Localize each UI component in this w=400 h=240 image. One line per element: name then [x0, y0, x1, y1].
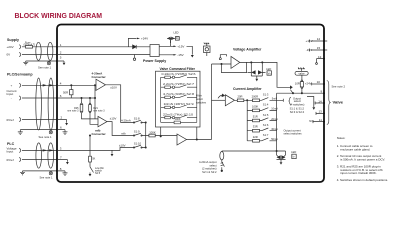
svg-text:0Vref: 0Vref: [7, 118, 14, 122]
svg-text:select: select: [196, 97, 203, 101]
svg-text:S1:7: S1:7: [263, 133, 269, 137]
svg-text:20mA: 20mA: [271, 118, 278, 121]
svg-text:PS: PS: [176, 38, 180, 41]
svg-text:enclosure cable gland.: enclosure cable gland.: [340, 147, 370, 151]
svg-text:S1:8: S1:8: [134, 116, 140, 120]
svg-text:100K: 100K: [149, 131, 156, 135]
svg-text:20R: 20R: [238, 94, 243, 98]
svg-text:S1:3: S1:3: [263, 93, 269, 97]
svg-text:30mA: 30mA: [271, 128, 278, 131]
svg-text:-15V: -15V: [177, 53, 183, 57]
svg-text:14: 14: [318, 99, 322, 103]
svg-text:13: 13: [318, 55, 322, 59]
svg-text:select switches: select switches: [284, 132, 303, 136]
svg-text:(4 switches): (4 switches): [290, 103, 304, 107]
svg-text:Valve Command Filter: Valve Command Filter: [160, 67, 196, 71]
svg-text:LED: LED: [174, 31, 179, 35]
svg-text:10mS (16Hz) S2:9: 10mS (16Hz) S2:9: [164, 103, 195, 106]
svg-text:Input: Input: [7, 92, 14, 96]
svg-text:+15V: +15V: [306, 39, 313, 43]
svg-text:+: +: [11, 84, 13, 88]
svg-text:4.7mS (34Hz) S2:8: 4.7mS (34Hz) S2:8: [163, 93, 195, 96]
svg-text:13: 13: [319, 110, 323, 114]
svg-text:2.2mS (72Hz) S2:7: 2.2mS (72Hz) S2:7: [163, 83, 195, 86]
svg-text:±10V: ±10V: [110, 117, 117, 121]
svg-text:50R: 50R: [63, 90, 68, 94]
svg-text:Converter: Converter: [92, 75, 107, 79]
svg-text:LED: LED: [291, 150, 296, 154]
svg-text:input current. Default 300K.: input current. Default 300K.: [340, 171, 377, 175]
svg-text:-: -: [11, 96, 12, 100]
svg-text:15: 15: [317, 46, 321, 50]
svg-text:Voltage Amplifier: Voltage Amplifier: [233, 48, 262, 52]
svg-text:Converter: Converter: [92, 132, 107, 136]
svg-text:see note 3: see note 3: [93, 109, 105, 112]
svg-text:±10V: ±10V: [119, 144, 126, 148]
svg-text:S1:9: S1:9: [134, 129, 140, 133]
svg-text:See note 1: See note 1: [40, 175, 54, 179]
svg-text:Input: Input: [7, 150, 14, 154]
svg-text:(500mA T): (500mA T): [24, 44, 36, 47]
svg-text:22mS (7Hz) S2:10: 22mS (7Hz) S2:10: [163, 113, 194, 116]
svg-text:200R: 200R: [252, 94, 258, 98]
svg-text:4. Switches shown in default p: 4. Switches shown in default positions.: [337, 178, 389, 182]
svg-text:LED: LED: [266, 67, 271, 71]
svg-text:switches: switches: [196, 100, 207, 104]
svg-text:0V: 0V: [7, 53, 11, 57]
svg-text:Power Supply: Power Supply: [143, 59, 166, 63]
svg-text:10mA: 10mA: [271, 108, 278, 111]
svg-text:100K: 100K: [252, 104, 258, 108]
svg-text:0.22mS (723Hz) S2:6: 0.22mS (723Hz) S2:6: [162, 73, 197, 76]
svg-text:Filter: Filter: [196, 94, 202, 98]
svg-text:S2:3 & S2:4: S2:3 & S2:4: [290, 110, 305, 114]
svg-text:10R: 10R: [295, 82, 300, 86]
svg-text:±10V: ±10V: [110, 86, 117, 90]
svg-text:Supply: Supply: [7, 38, 19, 42]
svg-text:+24V: +24V: [141, 37, 148, 41]
svg-text:51R: 51R: [253, 115, 258, 119]
svg-text:See note 1: See note 1: [39, 135, 53, 139]
svg-text:PLC: PLC: [7, 142, 15, 146]
svg-text:100K: 100K: [175, 117, 181, 121]
svg-text:S1:1 & S1:2: S1:1 & S1:2: [290, 106, 305, 110]
svg-text:Notes:: Notes:: [337, 136, 346, 140]
svg-text:12: 12: [317, 37, 321, 41]
svg-text:S1:5: S1:5: [263, 113, 269, 117]
svg-text:valve: valve: [298, 71, 305, 75]
svg-text:22R: 22R: [253, 135, 258, 139]
svg-text:50mA: 50mA: [271, 138, 278, 141]
svg-text:10: 10: [317, 80, 321, 84]
svg-text:mfb: mfb: [121, 132, 126, 136]
svg-text:33R: 33R: [253, 125, 258, 129]
svg-text:0Vref: 0Vref: [7, 158, 14, 162]
svg-text:Valve: Valve: [333, 101, 344, 105]
svg-text:BLOCK WIRING DIAGRAM: BLOCK WIRING DIAGRAM: [15, 11, 103, 20]
svg-text:5K: 5K: [92, 158, 95, 161]
svg-text:See note 1: See note 1: [38, 66, 52, 70]
svg-text:S1:6: S1:6: [263, 123, 269, 127]
svg-text:is 500mA. It cannot power a DC: is 500mA. It cannot power a DCV.: [340, 158, 385, 162]
svg-text:Current Amplifier: Current Amplifier: [233, 87, 262, 91]
svg-text:4-20mA: 4-20mA: [121, 119, 131, 123]
svg-text:S2:5: S2:5: [95, 172, 101, 175]
svg-text:+15V: +15V: [177, 45, 184, 49]
svg-text:+24V: +24V: [7, 45, 14, 49]
svg-text:+24V: +24V: [305, 82, 312, 86]
svg-text:S2:1 & S2:2: S2:1 & S2:2: [202, 170, 217, 174]
svg-text:See note 2: See note 2: [332, 85, 346, 89]
svg-text:S1:4: S1:4: [263, 103, 269, 107]
svg-text:see note 3: see note 3: [67, 109, 79, 112]
svg-text:5mA: 5mA: [272, 98, 277, 101]
svg-text:11: 11: [319, 118, 322, 122]
svg-text:NC: NC: [309, 119, 313, 123]
svg-text:S1:10: S1:10: [134, 141, 142, 145]
svg-text:PLC/Servoamp: PLC/Servoamp: [7, 73, 33, 77]
svg-text:select: select: [294, 99, 301, 103]
svg-text:-15V: -15V: [306, 48, 312, 52]
